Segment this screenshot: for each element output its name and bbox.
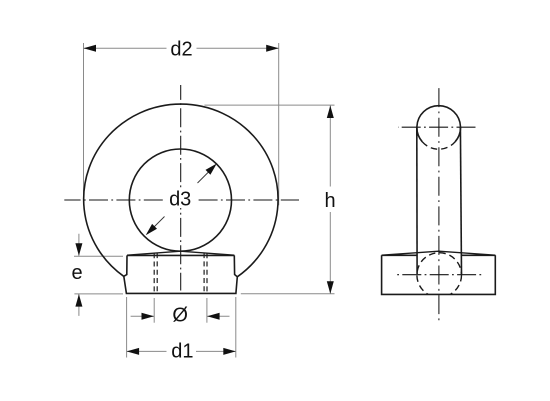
svg-text:h: h — [324, 190, 335, 212]
d1 dimension line — [127, 350, 236, 352]
svg-text:d3: d3 — [169, 189, 191, 211]
dia extension line left — [153, 298, 155, 323]
d1 extension line right — [235, 297, 237, 358]
white mask under d3 label — [164, 189, 197, 208]
nut top edge front view — [127, 254, 234, 256]
top circle side view — [417, 106, 461, 142]
vertical centerline front view — [180, 85, 182, 291]
dia arrow right — [207, 313, 220, 320]
d3 leader lower segment — [153, 217, 165, 229]
d2 extension line left — [83, 43, 85, 205]
h extension line bottom — [241, 293, 335, 295]
d1 arrow right — [223, 348, 236, 355]
h arrow bottom — [327, 281, 334, 294]
outer ring arc front view — [84, 104, 278, 277]
e dimension arrow tails — [78, 234, 80, 316]
e arrow top — [75, 243, 82, 256]
svg-text:Ø: Ø — [172, 304, 188, 326]
h extension line top — [204, 104, 334, 106]
d1 extension line left — [126, 297, 128, 358]
d1 arrow left — [127, 348, 140, 355]
d2 arrow left — [84, 45, 97, 52]
nut outline front view — [124, 255, 238, 293]
e extension line bottom — [74, 293, 123, 295]
dia extension line right — [206, 298, 208, 323]
base chamfer lines side view — [382, 251, 496, 255]
d2 extension line right — [278, 43, 280, 205]
column left edge side view — [416, 127, 418, 274]
dia dimension arrow tails — [131, 315, 230, 317]
d3 leader upper segment — [198, 171, 211, 184]
horizontal centerline side view top — [398, 126, 476, 128]
hidden arcs side view — [417, 142, 462, 297]
horizontal centerline front view — [64, 199, 299, 201]
d3 arrow lower left — [146, 224, 157, 235]
d3 arrow upper right — [206, 164, 217, 175]
bottom hidden circle side view — [417, 253, 462, 298]
svg-text:d2: d2 — [170, 38, 192, 60]
svg-text:e: e — [71, 262, 82, 284]
inner circle d3 front view — [129, 149, 231, 251]
e arrow bottom — [75, 294, 82, 307]
dia arrow left — [142, 313, 155, 320]
e extension line top — [74, 255, 123, 257]
h arrow top — [327, 106, 334, 119]
svg-text:d1: d1 — [171, 341, 193, 363]
vertical centerline side view — [438, 88, 440, 320]
d2 dimension line — [84, 47, 279, 49]
column right edge side view — [460, 127, 461, 274]
base outline side view — [382, 255, 496, 294]
base top edge segments side view — [382, 254, 496, 256]
nut chamfer lines front view — [127, 251, 234, 255]
top circle hidden lower arc — [422, 142, 455, 149]
h dimension line — [329, 106, 331, 294]
d2 arrow right — [266, 45, 279, 52]
horizontal centerline side view bottom — [397, 274, 481, 276]
thread hidden lines front view — [154, 253, 207, 293]
